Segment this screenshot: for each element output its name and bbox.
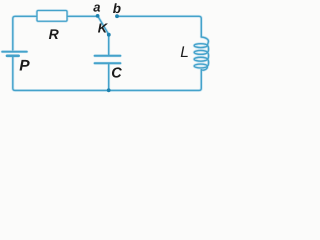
switch K lower contact dot — [107, 33, 111, 37]
inductor L loop 1 — [194, 44, 207, 48]
wire top-left rail from node a through resistor position and down left side to battery — [13, 16, 97, 50]
svg-text:L: L — [180, 44, 189, 61]
inductor L connector — [207, 59, 208, 66]
wire from battery down then bottom rail across to right rail up to coil — [13, 56, 202, 90]
inductor L connector — [207, 46, 208, 53]
switch K blade from node a to lower contact — [98, 16, 109, 34]
wire top-right rail from node b to coil top — [117, 16, 201, 37]
capacitor C bottom plate — [95, 62, 121, 65]
resistor R box — [37, 11, 67, 22]
wire top-right rail from node b to coil top — [117, 16, 201, 37]
inductor L loop 4 — [194, 64, 207, 68]
inductor L connector — [207, 46, 208, 53]
capacitor C top plate — [95, 54, 121, 57]
inductor L exit hook — [201, 66, 207, 70]
junction dot capacitor to bottom rail — [107, 88, 111, 92]
node a junction dot — [96, 14, 100, 18]
inductor L connector — [207, 59, 208, 66]
inductor L connector — [207, 52, 208, 59]
inductor L loop 3 — [194, 57, 207, 61]
inductor L loop 2 — [194, 50, 207, 54]
wire from capacitor bottom plate to bottom rail — [108, 64, 110, 90]
svg-text:a: a — [93, 0, 100, 14]
inductor L connector — [207, 52, 208, 59]
svg-text:b: b — [113, 1, 121, 16]
resistor R box — [37, 11, 67, 22]
svg-text:C: C — [111, 65, 122, 81]
capacitor C bottom plate — [95, 62, 121, 64]
wire from switch contact down to capacitor — [108, 35, 110, 55]
inductor L loop 2 — [194, 50, 207, 54]
battery P short plate — [7, 54, 19, 57]
battery P short plate — [7, 54, 19, 57]
inductor L exit hook — [201, 66, 207, 70]
svg-text:R: R — [49, 26, 60, 42]
wire top-left rail from node a through resistor position and down left side to battery — [13, 16, 97, 50]
node b junction dot — [115, 14, 119, 18]
switch K blade from node a to lower contact — [98, 16, 109, 34]
inductor L loop 1 — [194, 44, 207, 48]
wire from switch contact down to capacitor — [107, 35, 110, 55]
inductor L entry hook — [201, 37, 208, 46]
battery P long plate — [2, 51, 27, 53]
wire from capacitor bottom plate to bottom rail — [107, 64, 110, 90]
battery P long plate — [2, 50, 27, 53]
svg-text:K: K — [98, 20, 109, 35]
inductor L loop 3 — [194, 57, 207, 61]
wire from battery down then bottom rail across to right rail up to coil — [13, 56, 202, 90]
inductor L loop 4 — [194, 64, 207, 68]
svg-text:P: P — [19, 58, 30, 75]
capacitor C top plate — [95, 55, 121, 57]
inductor L entry hook — [201, 37, 208, 46]
